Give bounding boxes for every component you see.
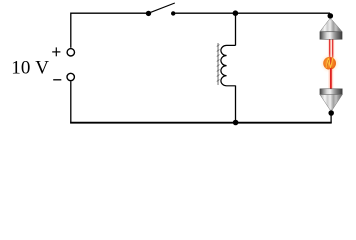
battery 10 V source terminal + (open circle) bbox=[67, 49, 74, 56]
lamp filament lead upper left bbox=[329, 40, 331, 59]
lamp top socket cone bbox=[320, 20, 342, 32]
inductor L core bar (hatched) bbox=[217, 43, 220, 85]
lamp filament zigzag inside ball bbox=[326, 58, 333, 68]
battery 10 V source terminal - (open circle) bbox=[67, 73, 74, 80]
node junction top (inductor branch) bbox=[233, 10, 239, 16]
lamp lead glow halo (lower lead) bbox=[329, 69, 334, 88]
lamp bottom terminal dot bbox=[328, 110, 334, 116]
inductor L coil winding bbox=[221, 45, 236, 85]
wire from battery + terminal up and right to switch pivot bbox=[71, 13, 147, 48]
switch S lever (open) bbox=[149, 3, 175, 13]
lamp top terminal dot bbox=[328, 13, 334, 19]
wire inductor branch bottom drop bbox=[235, 86, 237, 123]
lamp bottom socket ferrule band bbox=[320, 89, 342, 95]
wire from switch contact right to lamp top bbox=[174, 12, 330, 14]
lamp glowing bulb ball bbox=[323, 57, 336, 70]
wire inductor branch top drop bbox=[235, 13, 237, 45]
lamp filament lead upper right bbox=[332, 40, 334, 59]
lamp lead glow halo (upper leads) bbox=[328, 40, 334, 57]
lamp glow halo around bulb bbox=[320, 54, 340, 74]
lamp filament lead lower bbox=[330, 69, 332, 89]
lamp top socket ferrule band bbox=[320, 32, 342, 40]
wire bottom bus bbox=[70, 122, 332, 124]
lamp filament dark squiggle accent bbox=[327, 60, 329, 67]
lamp bottom socket cone bbox=[320, 95, 342, 110]
switch S contact dot bbox=[171, 11, 175, 15]
polarity - sign bbox=[53, 79, 61, 81]
switch S pivot dot bbox=[146, 11, 151, 16]
wire lamp bottom lead bbox=[330, 113, 332, 123]
wire from battery - terminal down bbox=[70, 81, 72, 123]
lamp filament lead through bulb bbox=[330, 58, 332, 71]
lamp filament lead crossing ball (over) bbox=[330, 58, 332, 70]
node junction bottom (inductor branch) bbox=[233, 120, 239, 126]
svg-text:10 V: 10 V bbox=[11, 57, 49, 78]
polarity + sign bbox=[52, 47, 60, 56]
